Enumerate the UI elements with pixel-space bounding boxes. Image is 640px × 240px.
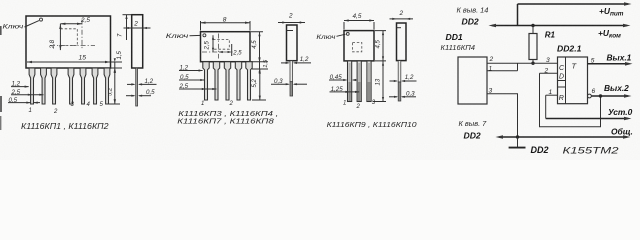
centerline vertical bbox=[218, 34, 220, 59]
pin 4 bbox=[235, 62, 241, 100]
node Vyh.2 feedback junction bbox=[599, 94, 602, 97]
pin 1 bbox=[29, 68, 35, 104]
output wire Vyh.1 bbox=[588, 63, 630, 65]
package body K1116KP1 front view bbox=[26, 16, 111, 68]
resistor R1 bbox=[529, 34, 537, 60]
crystal dashed outline bbox=[353, 43, 362, 52]
dimension 8 top bbox=[201, 21, 251, 31]
wire R1 bottom bbox=[532, 60, 534, 64]
inversion circle pin 6 bbox=[588, 94, 592, 98]
dimension 5,2 right bbox=[114, 68, 116, 104]
side pin upper bbox=[398, 61, 401, 82]
dimension 2 line bbox=[390, 18, 414, 20]
key leader wire bbox=[25, 21, 40, 27]
wire DD1 pin2 to C input bbox=[487, 62, 558, 64]
wire arrow to K vyv.7 bbox=[499, 136, 518, 138]
pin 2 bbox=[41, 68, 47, 104]
key circle bbox=[40, 18, 43, 21]
side pin upper bbox=[290, 61, 293, 82]
side pin lower measured part bbox=[398, 82, 401, 101]
dimension 7 vertical bbox=[123, 14, 133, 16]
dimension 2,8 vertical bbox=[59, 24, 61, 50]
wire R input bbox=[546, 94, 558, 96]
dimension 2 line bbox=[278, 22, 305, 24]
+Ukom line with arrow to K vyv.14 DD2 bbox=[492, 25, 627, 27]
chamfer line inside bbox=[287, 30, 294, 32]
node R1 top junction bbox=[531, 24, 534, 27]
wire Ust.0 to R bbox=[545, 95, 547, 118]
dimension 5,2 right bbox=[252, 68, 268, 70]
sensor DD1 block bbox=[458, 57, 487, 104]
package side view body bbox=[397, 23, 407, 61]
node R1 bottom junction bbox=[531, 62, 534, 65]
dimension 15 bbox=[27, 61, 110, 63]
flip-flop DD2.1 block bbox=[558, 57, 588, 104]
key leader wire bbox=[337, 34, 346, 36]
pin 3 bbox=[224, 62, 230, 100]
pin 6 bbox=[92, 68, 98, 104]
dimension 2,5 top bbox=[60, 23, 82, 25]
pin 5 bbox=[80, 68, 86, 104]
wire +Upit corner drop bbox=[517, 4, 519, 26]
output wire Vyh.2 bbox=[591, 95, 628, 97]
chamfer line inside bbox=[397, 27, 402, 29]
pin 7 bbox=[104, 68, 110, 104]
centerline vertical bbox=[81, 20, 83, 49]
package body K1116KP3 front view bbox=[201, 32, 251, 62]
side pin lower measured part bbox=[290, 82, 293, 96]
dimension 2,5 vertical inside bbox=[212, 35, 214, 52]
key circle bbox=[346, 33, 349, 36]
dimension 2,5 horizontal inside bbox=[231, 44, 233, 56]
lead 2 bbox=[357, 61, 361, 102]
crystal dashed outline bbox=[60, 29, 77, 46]
common rail Obshch bbox=[518, 136, 628, 138]
dimension 13 right bbox=[382, 61, 384, 102]
pin 2 bbox=[213, 62, 219, 100]
wire Q-bar feedback to D bbox=[540, 73, 601, 127]
scan edge artifacts bbox=[0, 26, 2, 35]
package body K1116KP9 front view bbox=[344, 31, 374, 61]
package side view body bbox=[132, 15, 143, 68]
common terminal T symbol bbox=[517, 137, 519, 147]
pin 4 bbox=[68, 68, 74, 104]
wire DD1 pin1 bbox=[487, 70, 518, 72]
key circle bbox=[203, 34, 206, 37]
wire pin1 up to pin2 net bbox=[517, 63, 519, 71]
lead 1 bbox=[348, 61, 352, 102]
node common junction bbox=[516, 135, 519, 138]
package side view body bbox=[287, 25, 298, 61]
crystal dashed outline bbox=[213, 40, 229, 50]
+Upit rail bbox=[518, 3, 629, 5]
pin 5 bbox=[246, 62, 252, 100]
pin 3 bbox=[51, 68, 57, 104]
wire DD1 pin3 bbox=[487, 94, 518, 137]
centerline horizontal bbox=[50, 45, 95, 47]
dimension 4,5 right bbox=[251, 32, 268, 62]
dimension 2 line bbox=[124, 27, 151, 29]
dimension 4,5 right bbox=[375, 31, 386, 61]
wire R1 top bbox=[532, 26, 534, 34]
pin 1 bbox=[203, 62, 209, 100]
side pin bbox=[136, 68, 138, 106]
dimension 1,5 right bbox=[111, 62, 123, 68]
lead 3 bbox=[367, 61, 371, 102]
centerline horizontal bbox=[202, 51, 233, 53]
set-0 line Ust.0 bbox=[546, 118, 628, 120]
key leader wire bbox=[190, 34, 202, 36]
wire D input bbox=[540, 72, 558, 74]
dimension 4,5 top bbox=[344, 22, 374, 30]
dimension 1,5 right bbox=[259, 62, 261, 69]
